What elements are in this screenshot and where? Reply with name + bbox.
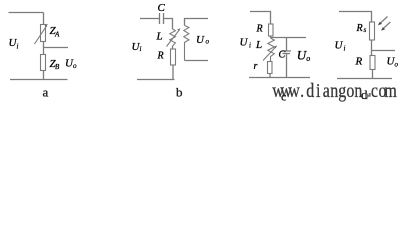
svg-text:C: C [158,2,166,14]
svg-text:a: a [43,85,49,100]
wire: secondary bottom stub [185,60,209,62]
svg-text:o: o [395,60,399,68]
wire: output tap to the right [44,47,69,49]
wire: bottom rail [10,79,68,81]
inductor L (zigzag coil) [170,29,176,46]
capacitor C plates (c) [282,51,292,54]
wire: RG bottom to R top [371,40,373,56]
svg-text:s: s [364,26,367,34]
svg-text:o: o [206,38,210,46]
svg-text:B: B [55,63,60,71]
impedance ZB (box) [41,55,46,71]
wire: r bottom to rail [269,74,271,78]
svg-text:R: R [356,23,363,34]
arrow of ZA [35,26,47,44]
capacitor C plates [159,13,161,24]
svg-text:A: A [54,31,60,39]
impedance ZA (variable, box with arrow) [41,25,46,42]
wire: bottom rail (b) [137,79,175,81]
svg-text:b: b [176,85,183,100]
wire: tap to the right (d) [372,50,396,52]
light arrow 2 [383,22,391,29]
capacitor C branch bottom [286,54,288,78]
svg-text:i: i [344,45,346,53]
svg-text:R: R [157,51,164,62]
wire: bottom rail (d) [337,78,392,80]
wire: input top wire [339,12,372,23]
svg-text:i: i [140,45,142,53]
arrow of L (variable) [167,30,180,46]
wire: R bottom to rail [172,65,174,80]
light arrow 1 [380,17,388,24]
wire: ZB bottom to rail [43,71,45,80]
svg-text:U: U [196,34,205,46]
wire: input top wire [140,18,159,20]
svg-text:o: o [73,62,77,70]
inductor L (zigzag, variable) [268,38,275,62]
resistor r (box) [268,62,273,74]
svg-text:www.diangon.com: www.diangon.com [272,79,397,101]
wire: secondary top stub [185,19,209,26]
wire: C to L branch [164,19,173,30]
wire: ZA bottom to ZB top [43,42,45,55]
wire: tap to the right [271,36,307,38]
svg-text:i: i [17,43,19,51]
photoresistor RG (box) [370,22,375,40]
svg-text:o: o [306,54,310,63]
svg-text:L: L [156,31,163,43]
resistor R (box) [269,24,274,36]
svg-text:i: i [249,42,251,50]
wire: bottom rail (c) [249,77,310,79]
svg-text:R: R [355,55,363,67]
resistor R (box) (d) [370,56,375,70]
wire: top input wire [9,12,44,14]
svg-text:U: U [240,37,249,49]
resistor R (box) [171,49,176,65]
watermark www.diangon.com [272,79,397,101]
arrow of L (c) [263,47,276,61]
svg-text:c: c [281,90,286,104]
svg-text:R: R [256,24,263,35]
wire: R bottom to rail [372,70,374,79]
svg-text:U: U [335,40,344,52]
svg-text:L: L [255,39,262,51]
svg-text:r: r [254,61,258,72]
inductor secondary (zigzag coil) [184,26,189,61]
wire: input top wire [250,12,271,25]
capacitor C branch top [286,38,288,51]
wire: L to R [172,46,174,49]
svg-text:C: C [279,49,286,60]
wire: branch down to ZA [43,13,45,25]
svg-text:↵: ↵ [366,92,372,100]
